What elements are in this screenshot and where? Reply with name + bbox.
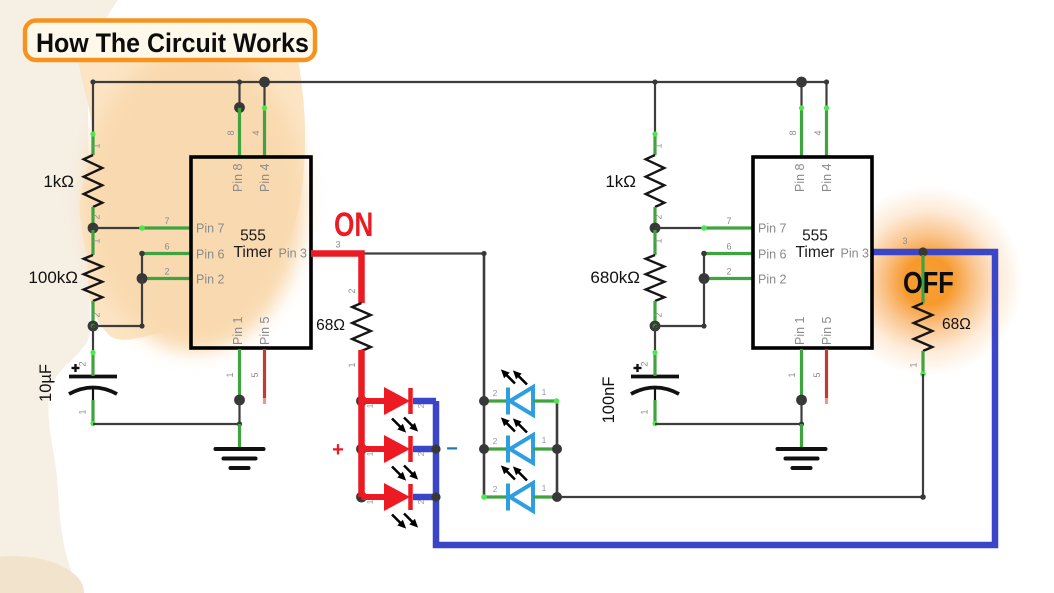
svg-text:1: 1 [365,451,375,456]
svg-text:68Ω: 68Ω [942,316,971,333]
title box [25,21,315,61]
LED D5 cyan [484,435,557,463]
svg-text:680kΩ: 680kΩ [590,268,640,287]
svg-text:2: 2 [493,484,498,494]
wire 1kOhm R1 top feed [92,82,94,134]
node D5 cathode [552,444,562,454]
node LED D3 anode [356,492,367,503]
wire cyan cathode rail [556,401,559,497]
svg-text:555: 555 [240,228,266,245]
node pin2 tie right [699,273,710,284]
LED D3 red [362,483,437,511]
LED D1 emission arrows [392,418,418,433]
wire R6 to cyan return [922,374,924,497]
node D5 anode [479,444,489,454]
pin 5 lead red right [812,349,827,404]
svg-text:Pin 4: Pin 4 [820,163,834,192]
svg-text:100kΩ: 100kΩ [28,268,78,287]
wire feed down to cyan LEDs [483,254,486,498]
svg-text:Pin 1: Pin 1 [231,316,245,345]
svg-text:2: 2 [416,499,426,504]
node tie corner [139,323,144,328]
svg-text:7: 7 [726,216,731,226]
svg-text:8: 8 [788,130,798,135]
pin 1 lead right [787,349,802,400]
pin 5 lead red [250,349,265,404]
wire anode rail thick red [358,350,365,497]
pin 4 lead [251,105,267,157]
node pin6 tie [139,251,145,257]
svg-text:5: 5 [812,372,822,377]
LED D5 emission arrows [501,417,527,432]
pin 7 lead right [701,216,753,231]
68 ohm R3 lead stub upper [360,278,363,303]
node tie corner right [701,323,706,328]
node D2 cathode [431,444,440,453]
LED D2 red [362,435,437,463]
svg-text:6: 6 [164,242,169,252]
resistor R5 680kOhm with leads [646,230,665,326]
svg-text:Pin 7: Pin 7 [196,222,225,236]
node feed corner [481,251,486,256]
svg-text:1kΩ: 1kΩ [605,172,636,191]
svg-text:1: 1 [909,362,919,367]
LED D4 cyan [484,387,557,415]
svg-text:3: 3 [335,240,340,250]
wire pin1 to ground rail [238,400,240,424]
node R2/C1 junction [88,321,99,332]
68 ohm R6 lead stub upper right [921,255,924,303]
svg-text:10µF: 10µF [37,364,55,402]
svg-text:Pin 8: Pin 8 [231,163,245,192]
wire 1kOhm R4 top feed [654,82,656,134]
node LED D2 anode [356,444,367,455]
node D6 anode green end [481,494,487,500]
svg-text:5: 5 [250,372,260,377]
wire pin2 down to R5/C2 junction [655,279,704,327]
node D4 cathode green end [554,398,560,404]
wire pin3 output thick red [311,254,362,304]
svg-text:2: 2 [347,288,357,293]
node R1/R2 junction [88,223,99,234]
svg-text:2: 2 [92,214,102,219]
svg-text:1: 1 [542,435,547,445]
node pin8 on rail [237,79,242,84]
node ground rail right [799,421,804,426]
node ground rail [237,421,242,426]
svg-text:Pin 3: Pin 3 [841,247,870,261]
svg-text:Pin 7: Pin 7 [758,222,787,236]
svg-text:6: 6 [726,242,731,252]
wire pin6-pin2 tie right [703,254,705,279]
pin 6 lead right [704,242,753,254]
node R6 return corner [920,494,926,500]
node R4 on rail [652,79,657,84]
svg-text:2: 2 [78,361,88,366]
svg-text:Pin 5: Pin 5 [820,316,834,345]
LED D3 emission arrows [392,514,418,529]
svg-text:Pin 4: Pin 4 [258,163,272,192]
pin name labels [758,163,869,345]
wire top power rail [93,81,827,83]
wire to ground symbol right [800,424,803,449]
svg-text:Pin 1: Pin 1 [793,316,807,345]
node pin3 right junction [918,247,927,256]
svg-text:1: 1 [78,409,88,414]
LED D2 emission arrows [392,466,418,481]
svg-text:68Ω: 68Ω [316,317,345,334]
pin 2 lead [142,267,191,279]
svg-text:How The Circuit Works: How The Circuit Works [36,27,309,58]
svg-text:2: 2 [416,403,426,408]
wire cyan return to R6 [557,496,923,498]
svg-text:4: 4 [813,130,823,135]
OFF glow [833,186,1023,376]
wire to ground symbol [238,424,241,449]
svg-text:1: 1 [654,143,664,148]
node top-left corner [90,79,95,84]
svg-text:1: 1 [787,372,797,377]
svg-text:2: 2 [726,267,731,277]
node pin4 on rail [259,77,270,88]
node pin1 junction right [796,395,807,406]
svg-text:Pin 2: Pin 2 [758,273,787,287]
svg-text:1: 1 [542,483,547,493]
LED D6 emission arrows [501,465,527,480]
LED D4 emission arrows [501,369,527,384]
wire pin4 feed [263,82,265,108]
svg-text:2: 2 [416,451,426,456]
wire pin8 feed right [800,82,802,108]
wire junction to C2 [654,326,656,353]
node pin2 tie [137,273,148,284]
resistor R4 1kOhm with leads [646,131,665,226]
wire pin7 from R1/R2 junction [93,227,142,229]
background peach blob [77,30,305,340]
resistor R6 68Ohm [909,303,933,377]
svg-text:2: 2 [493,436,498,446]
svg-text:Timer: Timer [795,244,834,261]
wire pin6-pin2 tie [141,254,143,279]
svg-text:100nF: 100nF [600,377,618,424]
resistor R2 100kOhm with leads [84,230,103,326]
svg-text:1: 1 [347,362,357,367]
svg-text:Pin 6: Pin 6 [758,248,787,262]
node R5/C2 junction [650,321,661,332]
svg-text:2: 2 [164,267,169,277]
svg-text:Pin 5: Pin 5 [258,316,272,345]
svg-text:2: 2 [493,388,498,398]
ground GND1 [216,447,264,451]
node R4/R5 junction [650,223,661,234]
svg-text:2: 2 [92,312,102,317]
svg-text:OFF: OFF [903,266,954,301]
svg-text:1: 1 [542,387,547,397]
wire pin2 down to R2/C1 junction [93,279,142,327]
LED D1 red [362,387,437,415]
op-amp U2 555 timer box [753,157,872,348]
svg-text:4: 4 [251,130,261,135]
capacitor 100nF [631,350,679,426]
svg-text:ON: ON [334,206,373,244]
LED D6 cyan [484,483,557,511]
svg-text:555: 555 [802,228,828,245]
wire pin1 to ground rail right [800,400,802,424]
background cream strip left edge [0,0,118,593]
svg-text:1: 1 [365,403,375,408]
pin 1 lead [225,349,240,400]
svg-text:3: 3 [902,236,907,246]
pin 8 lead [226,108,240,157]
wire pin8 feed [238,82,240,108]
pin 8 lead right [788,105,804,157]
pin 7 lead [139,216,191,231]
svg-text:1: 1 [365,499,375,504]
svg-text:Timer: Timer [233,244,272,261]
node pin8 on rail right [796,77,807,88]
background deeper peach inner blob [85,48,305,352]
node pin4 on rail right [824,79,829,84]
svg-text:Pin 8: Pin 8 [793,163,807,192]
node D6 cathode [552,492,562,502]
svg-text:1: 1 [92,143,102,148]
wire C2 bottom to ground rail [655,423,802,425]
resistor R3 68Ohm [347,288,371,367]
node D4 anode [479,396,489,406]
pin 6 lead [142,242,191,254]
svg-text:Pin 2: Pin 2 [196,273,225,287]
pin 4 lead right [813,105,829,157]
background bottom-left cream blob [0,556,84,593]
svg-text:7: 7 [164,216,169,226]
svg-text:2: 2 [640,361,650,366]
svg-text:−: − [446,438,458,460]
wire C1 bottom to ground rail [93,423,240,425]
svg-text:Pin 6: Pin 6 [196,248,225,262]
op-amp U1 555 timer box [191,157,311,348]
node pin8 mid junction [234,102,245,113]
wire junction to C1 [92,326,94,353]
wire pin4 feed right [825,82,827,108]
wire pin3 to LED feed thin [362,252,484,254]
svg-text:1kΩ: 1kΩ [43,172,74,191]
ground GND2 [778,447,826,451]
svg-text:8: 8 [226,130,236,135]
svg-text:Pin 3: Pin 3 [279,247,308,261]
wire pin7 from R4/R5 junction [655,227,704,229]
555 timer internal labels [233,228,272,262]
svg-text:1: 1 [225,372,235,377]
node LED D1 anode [356,396,367,407]
node pin1 junction [234,395,245,406]
svg-text:+: + [332,439,344,461]
svg-text:1: 1 [640,409,650,414]
pin name labels [196,163,307,345]
svg-text:2: 2 [654,214,664,219]
svg-text:2: 2 [654,312,664,317]
node D3 cathode [431,492,440,501]
wire cathode rail thick blue [436,252,995,545]
svg-text:1: 1 [654,238,664,243]
svg-text:1: 1 [92,238,102,243]
node pin6 tie right [701,251,707,257]
resistor R1 1kOhm with leads [84,131,103,226]
pin 2 lead right [704,267,753,279]
capacitor 10&#181;F [69,350,117,426]
555 timer internal labels [795,228,834,262]
